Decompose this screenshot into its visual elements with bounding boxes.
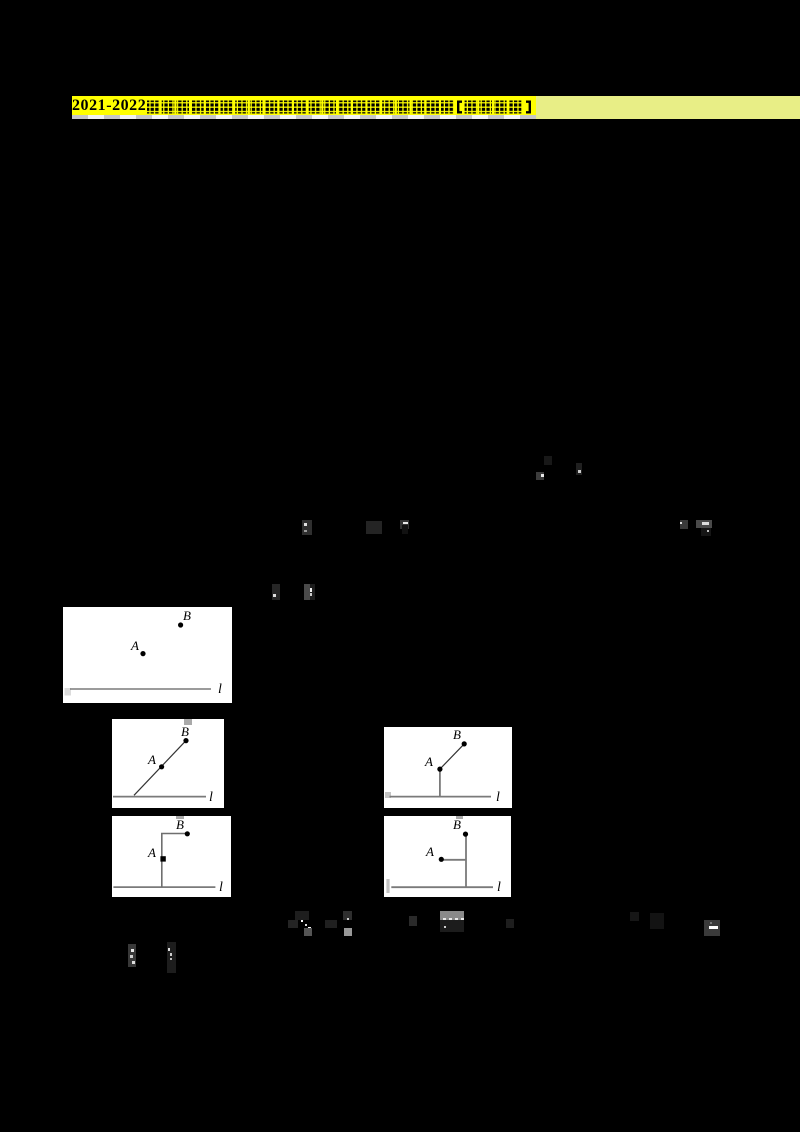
mark r8 [650, 913, 664, 929]
mark angle2 [576, 463, 582, 475]
figure box 4 [112, 816, 231, 897]
title highlight bar (vivid part) [72, 96, 536, 115]
figure box 2 [112, 719, 224, 808]
svg-text:l: l [497, 880, 501, 895]
line l [70, 688, 211, 690]
mark r4 [343, 911, 352, 920]
line l [391, 886, 493, 888]
point A [160, 856, 165, 861]
bracket 【 [457, 101, 462, 114]
segment A to B [440, 744, 464, 769]
svg-text:A: A [147, 845, 156, 860]
vertical line below B [465, 835, 467, 888]
svg-text:A: A [147, 752, 156, 767]
gray handle square [456, 816, 463, 819]
mark angle1 gray square [536, 472, 544, 480]
bracket 】 [526, 101, 531, 114]
point A [159, 764, 164, 769]
title text [72, 96, 536, 115]
vertical segment from A [439, 770, 441, 797]
svg-text:l: l [219, 880, 223, 895]
title highlight bar (pale right part) [536, 96, 800, 119]
svg-text:A: A [425, 844, 434, 859]
mark r7 [630, 912, 639, 921]
point B [462, 741, 467, 746]
svg-text:A: A [130, 638, 139, 653]
line l [113, 796, 206, 798]
figure box 1 [63, 607, 232, 703]
anchor square [385, 792, 391, 798]
mark f4 [366, 521, 382, 534]
vertical + horizontal path [162, 834, 187, 888]
mark r6 [506, 919, 514, 928]
mark b2 [167, 942, 176, 973]
line l [113, 886, 215, 888]
mark r5 [409, 916, 417, 926]
formula image dark body [440, 920, 464, 932]
mark r3 [325, 920, 337, 928]
mark f9 [304, 584, 310, 600]
mark r1 [295, 911, 309, 920]
point B [185, 831, 190, 836]
gray handle square [184, 719, 192, 725]
mark f6 [680, 520, 688, 529]
svg-text:l: l [218, 682, 222, 697]
point A [140, 651, 145, 656]
anchor square [65, 688, 72, 696]
svg-text:A: A [424, 754, 433, 769]
svg-text:l: l [496, 790, 500, 805]
simulated CJK glyph blocks of title [146, 99, 532, 115]
mark r2 [288, 920, 298, 928]
mark f5 seven-box [400, 520, 409, 529]
point B [178, 622, 183, 627]
svg-text:B: B [183, 608, 191, 623]
point B [183, 738, 188, 743]
mark f3 [302, 520, 312, 535]
line l [390, 796, 492, 798]
mark r2 gray square [304, 928, 312, 936]
mark angle-box [704, 920, 720, 936]
gray band under title [72, 115, 536, 119]
point A [439, 857, 444, 862]
svg-text:B: B [181, 724, 189, 739]
figure box 3 [384, 727, 512, 808]
point A [437, 767, 442, 772]
point B [463, 832, 468, 837]
mark r4 gray square [344, 928, 352, 936]
svg-text:l: l [209, 790, 213, 805]
gray left bar [386, 879, 389, 893]
formula image gray cap [440, 911, 464, 920]
figure box 5 [384, 816, 511, 897]
mark angle1 col [544, 456, 552, 465]
svg-text:B: B [453, 727, 461, 742]
mark f7 [696, 520, 712, 528]
svg-text:B: B [453, 817, 461, 832]
horizontal from A [442, 859, 466, 861]
mark b1 [128, 944, 136, 967]
svg-text:B: B [176, 817, 184, 832]
mark f8 [272, 584, 280, 600]
gray handle square [176, 816, 184, 819]
ray through A B [134, 741, 186, 796]
